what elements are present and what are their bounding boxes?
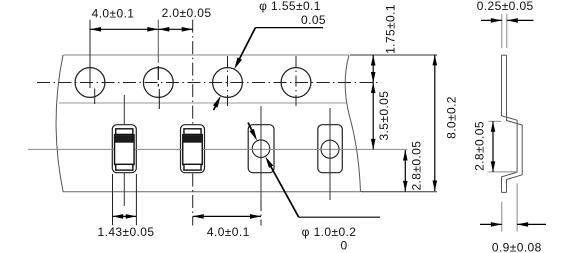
sprocket hole 4 bbox=[281, 68, 311, 98]
svg-text:2.8±0.05: 2.8±0.05 bbox=[473, 121, 487, 171]
sprocket hole 1 bbox=[75, 68, 105, 98]
component 2 top terminal bbox=[184, 129, 201, 135]
pocket 1 vertical centerline (upper) bbox=[123, 95, 125, 125]
component 2 cathode band bbox=[183, 135, 202, 142]
0.25 dim extension lines bbox=[501, 14, 503, 48]
cross-section bottom closing edge bbox=[502, 191, 507, 193]
2.8 section dim extension lines bbox=[489, 120, 502, 122]
hole 2 lower tick bbox=[158, 89, 160, 109]
bottom dim 1.43 right extension bbox=[135, 174, 137, 225]
svg-text:1.43±0.05: 1.43±0.05 bbox=[98, 225, 155, 239]
right dim line 1.75 bbox=[372, 55, 374, 83]
pocket 4 vertical centerline bbox=[329, 108, 331, 200]
svg-text:4.0±0.1: 4.0±0.1 bbox=[92, 7, 135, 21]
hole 4 vertical centerline (dash-dot) bbox=[295, 56, 297, 107]
top dimension line 2.0 bbox=[158, 28, 192, 30]
svg-text:1.75±0.1: 1.75±0.1 bbox=[384, 4, 398, 54]
pocket 3 lower dash-dot extension bbox=[260, 200, 262, 226]
svg-text:2.8±0.05: 2.8±0.05 bbox=[410, 141, 424, 191]
pocket 4 bottom hole bbox=[321, 140, 339, 158]
svg-text:2.0±0.05: 2.0±0.05 bbox=[162, 6, 212, 20]
pocket 2 outline bbox=[181, 125, 205, 173]
svg-text:0.9±0.08: 0.9±0.08 bbox=[492, 241, 542, 253]
hole 1 lower tick bbox=[94, 89, 96, 105]
leader phi1.0 opposite arrow bbox=[248, 123, 253, 133]
top dimension line 4.0 bbox=[90, 28, 158, 30]
svg-text:3.5±0.05: 3.5±0.05 bbox=[377, 91, 391, 141]
bottom dim 1.43 left extension bbox=[112, 174, 114, 225]
svg-text:φ 1.55±0.1: φ 1.55±0.1 bbox=[259, 0, 321, 13]
sprocket hole 2 bbox=[143, 68, 173, 98]
tape bottom edge extension to dims bbox=[361, 191, 437, 193]
left-view dim line 2.8 bbox=[404, 150, 406, 191]
pocket row centerline (horizontal) bbox=[28, 148, 408, 150]
leader phi1.55 horizontal bbox=[255, 27, 323, 29]
hole 3 vertical centerline (dash-dot) bbox=[227, 56, 229, 107]
0.9 dim extension lines bbox=[501, 202, 503, 232]
pocket 3 outline bbox=[248, 125, 274, 173]
tape top edge bbox=[63, 54, 349, 56]
0.9 dim right arrow bbox=[517, 223, 546, 225]
svg-text:8.0±0.2: 8.0±0.2 bbox=[445, 96, 459, 139]
component 2 bottom terminal bbox=[184, 164, 201, 170]
tape left torn edge bbox=[56, 55, 63, 192]
tape bottom edge bbox=[63, 191, 360, 193]
cross-section profile outer face bbox=[502, 55, 518, 192]
pocket 3 bottom hole bbox=[252, 140, 270, 158]
component 1 top terminal bbox=[116, 129, 133, 135]
0.9 dim left arrow bbox=[480, 223, 502, 225]
component 1 bottom terminal bbox=[116, 164, 133, 170]
component 1 body bbox=[115, 135, 135, 165]
svg-text:φ 1.0±0.2: φ 1.0±0.2 bbox=[302, 225, 357, 239]
svg-text:0.05: 0.05 bbox=[301, 13, 326, 27]
pocket 3 vertical centerline bbox=[260, 106, 262, 200]
hole 1 vertical extension line bbox=[89, 20, 91, 88]
svg-text:4.0±0.1: 4.0±0.1 bbox=[207, 225, 250, 239]
sprocket hole centerline (dash-dot horizontal) bbox=[37, 82, 378, 84]
tape top edge extension to dims bbox=[350, 54, 437, 56]
svg-text:0.25±0.05: 0.25±0.05 bbox=[477, 0, 534, 13]
component 1 cathode band bbox=[115, 135, 134, 142]
2.8 section dim line bbox=[492, 121, 494, 172]
pocket 4 outline bbox=[318, 125, 343, 173]
hole 2 vertical extension line bbox=[157, 20, 159, 63]
pocket 1 outline bbox=[112, 125, 136, 173]
leader phi1.55 opposite arrow bbox=[214, 104, 217, 110]
tape right torn edge bbox=[345, 55, 360, 192]
sprocket hole 3 bbox=[213, 68, 243, 98]
0.25 dim right arrow bbox=[507, 19, 534, 21]
component 2 body bbox=[183, 135, 203, 165]
leader phi1.0 diagonal bbox=[270, 165, 299, 217]
bottom dimension line 1.43 bbox=[113, 215, 137, 217]
tape inner line bbox=[59, 102, 347, 104]
dim line 8.0 bbox=[434, 55, 436, 191]
cross-section top closing edge bbox=[502, 54, 507, 56]
right dim line 3.5 bbox=[372, 83, 374, 150]
hole 2 center mark dash bbox=[157, 66, 159, 80]
leader phi1.0 horizontal bbox=[299, 216, 380, 218]
0.25 dim left arrow bbox=[481, 19, 502, 21]
pocket 1 vertical centerline (lower) bbox=[123, 173, 125, 206]
leader phi1.55 diagonal bbox=[239, 28, 256, 61]
bottom dimension line 4.0 bbox=[193, 215, 261, 217]
cross-section profile inner face bbox=[507, 55, 523, 192]
svg-text:0: 0 bbox=[340, 239, 347, 253]
pocket 2 vertical centerline lower (dash-dot) bbox=[192, 174, 194, 226]
pocket 2 vertical centerline upper (dash-dot) bbox=[192, 20, 194, 125]
